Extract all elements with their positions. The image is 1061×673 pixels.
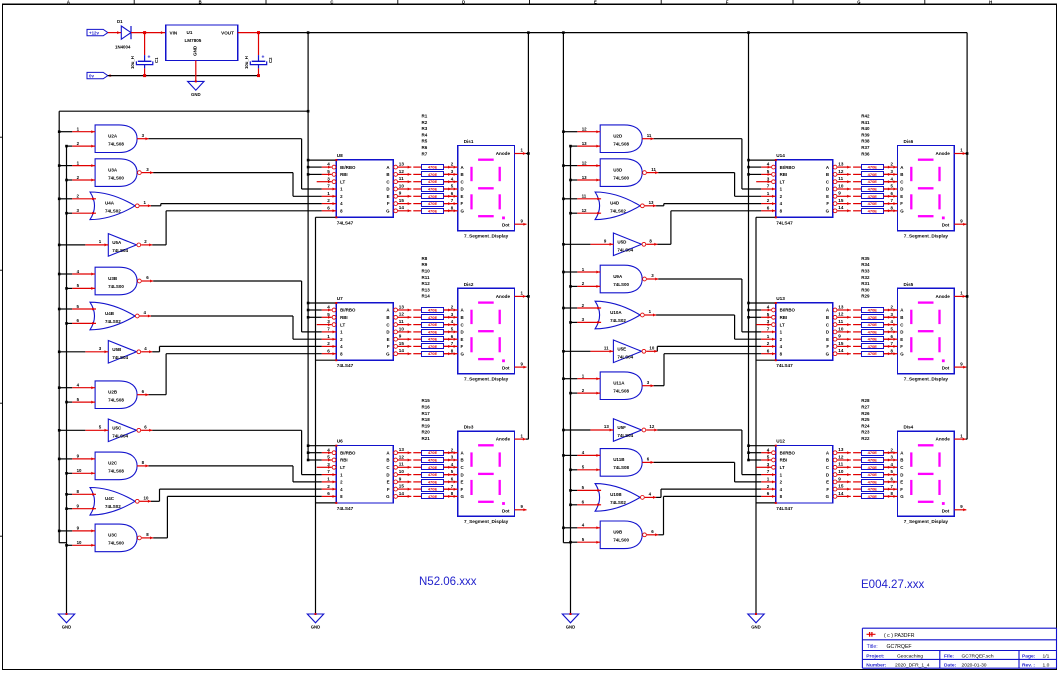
svg-text:LT: LT (340, 179, 345, 184)
svg-text:R18: R18 (422, 417, 431, 422)
svg-text:6: 6 (327, 491, 330, 496)
svg-text:1/1: 1/1 (1043, 654, 1050, 660)
svg-text:5: 5 (327, 455, 330, 460)
svg-text:E: E (387, 337, 390, 342)
svg-text:G: G (826, 494, 830, 499)
svg-text:F: F (387, 201, 390, 206)
svg-text:U3B: U3B (108, 276, 118, 281)
svg-text:10: 10 (838, 469, 844, 474)
svg-text:LT: LT (340, 322, 345, 327)
svg-text:GND: GND (62, 625, 72, 630)
svg-text:D: D (386, 187, 389, 192)
svg-text:1.0: 1.0 (1043, 662, 1050, 668)
svg-text:Number:: Number: (866, 662, 886, 668)
svg-text:+: + (148, 55, 151, 61)
svg-text:R16: R16 (422, 405, 431, 410)
svg-text:U9B: U9B (613, 530, 623, 535)
svg-text:E: E (461, 480, 464, 485)
svg-text:5: 5 (327, 312, 330, 317)
svg-text:9: 9 (399, 191, 402, 196)
svg-text:BI/RBO: BI/RBO (780, 165, 796, 170)
svg-text:74LS47: 74LS47 (776, 220, 793, 225)
svg-text:R37: R37 (861, 145, 870, 150)
svg-text:U2A: U2A (108, 134, 118, 139)
svg-text:U10B: U10B (610, 492, 622, 497)
svg-text:R19: R19 (422, 423, 431, 428)
svg-text:4: 4 (767, 305, 770, 310)
svg-text:12: 12 (582, 127, 587, 132)
svg-text:10u_H: 10u_H (244, 56, 249, 69)
svg-text:G: G (900, 494, 904, 499)
svg-text:E: E (826, 337, 829, 342)
svg-text:( c ) PA3DFR: ( c ) PA3DFR (884, 633, 915, 639)
svg-text:74LS04: 74LS04 (112, 248, 128, 253)
svg-text:13: 13 (582, 175, 587, 180)
svg-text:R35: R35 (861, 256, 870, 261)
svg-text:Rev. :: Rev. : (1022, 662, 1035, 668)
svg-text:+12v: +12v (89, 30, 99, 35)
svg-text:74LS47: 74LS47 (776, 363, 793, 368)
svg-text:470E: 470E (868, 465, 878, 470)
svg-text:470E: 470E (868, 165, 878, 170)
svg-text:File:: File: (944, 654, 954, 660)
svg-text:1: 1 (327, 191, 330, 196)
svg-text:12: 12 (838, 312, 844, 317)
svg-text:G: G (386, 494, 390, 499)
svg-text:U4C: U4C (105, 496, 115, 501)
svg-text:F: F (387, 344, 390, 349)
svg-text:9: 9 (838, 191, 841, 196)
svg-text:4: 4 (327, 305, 330, 310)
svg-text:RBI: RBI (780, 458, 788, 463)
svg-text:3: 3 (327, 176, 330, 181)
svg-text:U12: U12 (776, 439, 785, 444)
svg-text:2020-01-30: 2020-01-30 (962, 662, 987, 668)
svg-text:470E: 470E (428, 487, 438, 492)
svg-text:15: 15 (399, 484, 405, 489)
svg-text:B: B (386, 315, 389, 320)
svg-text:R4: R4 (422, 132, 428, 137)
svg-text:470E: 470E (868, 494, 878, 499)
svg-text:RBI: RBI (780, 315, 788, 320)
svg-text:E: E (900, 480, 903, 485)
svg-text:U5F: U5F (617, 425, 626, 430)
svg-text:U5D: U5D (617, 240, 627, 245)
svg-text:B: B (386, 172, 389, 177)
svg-text:10u_H: 10u_H (130, 56, 135, 69)
svg-text:D: D (461, 472, 464, 477)
svg-text:C2: C2 (268, 57, 273, 63)
svg-text:13: 13 (399, 447, 405, 452)
svg-text:U1: U1 (187, 30, 193, 35)
svg-text:G: G (826, 351, 830, 356)
svg-text:6: 6 (767, 491, 770, 496)
svg-text:R7: R7 (422, 151, 428, 156)
svg-text:C1: C1 (154, 57, 159, 63)
svg-text:F: F (900, 201, 903, 206)
svg-text:13: 13 (838, 447, 844, 452)
svg-text:R25: R25 (861, 417, 870, 422)
svg-text:74LS08: 74LS08 (108, 142, 124, 147)
svg-text:Anode: Anode (496, 294, 511, 299)
svg-text:12: 12 (399, 169, 405, 174)
svg-text:U3C: U3C (108, 533, 118, 538)
svg-text:Dot: Dot (502, 366, 510, 371)
svg-text:GND: GND (566, 625, 576, 630)
svg-text:74LS47: 74LS47 (337, 363, 354, 368)
svg-text:11: 11 (399, 462, 404, 467)
svg-text:E: E (594, 0, 597, 5)
svg-text:+: + (261, 55, 264, 61)
svg-text:E: E (387, 194, 390, 199)
svg-text:7: 7 (327, 469, 330, 474)
svg-text:10: 10 (77, 468, 82, 473)
svg-text:7_Segment_Display: 7_Segment_Display (904, 234, 949, 239)
svg-text:R21: R21 (422, 436, 431, 441)
svg-text:14: 14 (399, 205, 405, 210)
svg-text:9: 9 (838, 476, 841, 481)
svg-text:3: 3 (327, 462, 330, 467)
svg-text:D: D (462, 0, 465, 5)
svg-text:470E: 470E (868, 479, 878, 484)
svg-text:Anode: Anode (496, 437, 511, 442)
svg-text:B: B (386, 458, 389, 463)
svg-text:BI/RBO: BI/RBO (340, 165, 356, 170)
svg-text:74LS08: 74LS08 (613, 465, 629, 470)
svg-text:1N4004: 1N4004 (115, 44, 131, 49)
svg-text:6: 6 (327, 205, 330, 210)
svg-text:R30: R30 (861, 287, 870, 292)
svg-text:LT: LT (780, 322, 785, 327)
svg-text:R27: R27 (861, 405, 870, 410)
svg-text:2020_DFR_1_4: 2020_DFR_1_4 (895, 662, 930, 668)
svg-text:74LS47: 74LS47 (776, 506, 793, 511)
svg-text:Dis3: Dis3 (464, 425, 474, 430)
svg-text:Dot: Dot (502, 223, 510, 228)
svg-text:470E: 470E (868, 322, 878, 327)
svg-text:14: 14 (838, 205, 844, 210)
svg-text:U11B: U11B (613, 457, 625, 462)
svg-text:11: 11 (399, 319, 404, 324)
svg-text:13: 13 (838, 162, 844, 167)
svg-text:74LS02: 74LS02 (610, 500, 626, 505)
svg-text:B: B (900, 172, 903, 177)
svg-text:470E: 470E (868, 172, 878, 177)
svg-text:R3: R3 (422, 126, 428, 131)
svg-text:15: 15 (838, 198, 844, 203)
svg-text:13: 13 (399, 304, 405, 309)
svg-text:RBI: RBI (340, 458, 348, 463)
svg-text:11: 11 (838, 319, 843, 324)
svg-text:B: B (461, 315, 464, 320)
svg-text:D: D (900, 187, 903, 192)
svg-text:R5: R5 (422, 139, 428, 144)
svg-text:3: 3 (767, 319, 770, 324)
svg-text:F: F (387, 487, 390, 492)
svg-text:B: B (461, 172, 464, 177)
svg-text:14: 14 (399, 348, 405, 353)
svg-text:F: F (461, 344, 464, 349)
svg-text:R40: R40 (861, 126, 870, 131)
svg-text:470E: 470E (428, 172, 438, 177)
svg-text:D: D (826, 187, 829, 192)
svg-text:3: 3 (767, 462, 770, 467)
svg-text:74LS00: 74LS00 (108, 175, 124, 180)
svg-text:U14: U14 (776, 153, 785, 158)
svg-text:Dot: Dot (502, 508, 510, 513)
svg-text:470E: 470E (428, 479, 438, 484)
svg-text:U4D: U4D (610, 201, 620, 206)
svg-text:74LS04: 74LS04 (617, 247, 633, 252)
svg-text:470E: 470E (428, 194, 438, 199)
svg-text:14: 14 (399, 491, 405, 496)
svg-text:4: 4 (327, 447, 330, 452)
svg-text:7_Segment_Display: 7_Segment_Display (904, 376, 949, 381)
svg-text:74LS02: 74LS02 (105, 319, 121, 324)
svg-text:470E: 470E (868, 337, 878, 342)
svg-text:Geocaching: Geocaching (897, 654, 923, 660)
svg-text:10: 10 (399, 183, 405, 188)
svg-text:GND: GND (751, 625, 761, 630)
svg-text:R11: R11 (422, 275, 431, 280)
svg-text:U4A: U4A (105, 201, 115, 206)
svg-text:1: 1 (327, 477, 330, 482)
svg-text:Anode: Anode (496, 151, 511, 156)
svg-text:G: G (826, 209, 830, 214)
svg-text:1: 1 (767, 334, 770, 339)
svg-text:470E: 470E (428, 344, 438, 349)
svg-text:G: G (461, 209, 465, 214)
svg-text:470E: 470E (868, 187, 878, 192)
svg-text:1: 1 (767, 477, 770, 482)
svg-text:Dot: Dot (942, 366, 950, 371)
svg-text:U5A: U5A (112, 240, 122, 245)
svg-text:C: C (330, 0, 333, 5)
svg-text:Project:: Project: (866, 654, 885, 660)
svg-text:6: 6 (767, 205, 770, 210)
svg-text:4: 4 (327, 162, 330, 167)
svg-text:10: 10 (144, 496, 149, 501)
svg-text:6: 6 (327, 348, 330, 353)
svg-text:E: E (900, 337, 903, 342)
svg-text:470E: 470E (428, 494, 438, 499)
svg-text:3: 3 (767, 176, 770, 181)
svg-text:GND: GND (193, 45, 198, 56)
svg-text:470E: 470E (428, 351, 438, 356)
svg-text:N52.06.xxx: N52.06.xxx (419, 576, 477, 588)
svg-text:B: B (826, 315, 829, 320)
svg-text:470E: 470E (868, 458, 878, 463)
svg-text:3: 3 (327, 319, 330, 324)
svg-text:470E: 470E (428, 472, 438, 477)
svg-text:12: 12 (582, 208, 587, 213)
svg-text:G: G (461, 494, 465, 499)
svg-text:GND: GND (191, 92, 201, 97)
svg-text:F: F (826, 201, 829, 206)
svg-text:11: 11 (582, 194, 587, 199)
svg-text:15: 15 (838, 484, 844, 489)
svg-text:13: 13 (604, 424, 609, 429)
svg-text:R33: R33 (861, 269, 870, 274)
svg-text:R17: R17 (422, 411, 431, 416)
svg-text:Dis4: Dis4 (904, 425, 914, 430)
svg-text:R1: R1 (422, 114, 428, 119)
svg-text:11: 11 (647, 133, 652, 138)
svg-text:2: 2 (327, 341, 330, 346)
svg-text:74LS00: 74LS00 (613, 282, 629, 287)
svg-text:F: F (726, 0, 729, 5)
svg-text:12: 12 (582, 160, 587, 165)
svg-text:5: 5 (767, 169, 770, 174)
svg-text:74LS02: 74LS02 (105, 504, 121, 509)
svg-text:74LS08: 74LS08 (108, 469, 124, 474)
svg-text:470E: 470E (868, 194, 878, 199)
svg-text:Dis2: Dis2 (464, 282, 474, 287)
svg-text:10: 10 (77, 540, 82, 545)
svg-text:U2B: U2B (108, 390, 118, 395)
svg-text:GND: GND (311, 625, 321, 630)
svg-text:LT: LT (780, 179, 785, 184)
svg-text:R38: R38 (861, 139, 870, 144)
svg-text:7_Segment_Display: 7_Segment_Display (464, 376, 509, 381)
svg-text:D: D (826, 330, 829, 335)
svg-text:470E: 470E (428, 208, 438, 213)
svg-text:11: 11 (604, 346, 609, 351)
svg-text:470E: 470E (428, 187, 438, 192)
svg-text:U13: U13 (776, 296, 785, 301)
svg-text:7_Segment_Display: 7_Segment_Display (464, 519, 509, 524)
svg-text:U2D: U2D (613, 134, 623, 139)
svg-text:U2C: U2C (108, 461, 118, 466)
svg-text:470E: 470E (868, 315, 878, 320)
svg-text:74LS02: 74LS02 (105, 209, 121, 214)
svg-text:F: F (826, 487, 829, 492)
svg-text:GC7RQEF.sch: GC7RQEF.sch (962, 654, 994, 660)
svg-text:470E: 470E (428, 201, 438, 206)
svg-text:11: 11 (399, 176, 404, 181)
svg-text:B: B (826, 458, 829, 463)
svg-text:74LS00: 74LS00 (108, 541, 124, 546)
svg-text:11: 11 (651, 167, 656, 172)
svg-text:B: B (900, 458, 903, 463)
svg-text:U7: U7 (337, 296, 343, 301)
svg-text:BI/RBO: BI/RBO (780, 308, 796, 313)
svg-text:R14: R14 (422, 294, 431, 299)
svg-text:11: 11 (838, 462, 843, 467)
svg-text:R24: R24 (861, 423, 870, 428)
svg-text:D: D (386, 472, 389, 477)
svg-text:U10A: U10A (610, 310, 622, 315)
svg-text:2: 2 (767, 198, 770, 203)
svg-text:G: G (900, 209, 904, 214)
svg-text:U6: U6 (337, 439, 343, 444)
svg-text:R32: R32 (861, 275, 870, 280)
svg-text:R28: R28 (861, 398, 870, 403)
svg-text:470E: 470E (868, 344, 878, 349)
svg-text:R8: R8 (422, 256, 428, 261)
svg-text:10: 10 (399, 326, 405, 331)
svg-text:470E: 470E (868, 450, 878, 455)
svg-text:U5B: U5B (112, 347, 122, 352)
svg-text:12: 12 (399, 454, 405, 459)
svg-text:VOUT: VOUT (221, 31, 234, 36)
svg-text:74LS00: 74LS00 (613, 175, 629, 180)
svg-text:R42: R42 (861, 114, 870, 119)
svg-text:GC7RQEF: GC7RQEF (887, 644, 912, 650)
svg-text:RBI: RBI (780, 172, 788, 177)
svg-text:G: G (900, 351, 904, 356)
svg-text:74LS02: 74LS02 (610, 318, 626, 323)
svg-text:R34: R34 (861, 262, 870, 267)
svg-text:74LS08: 74LS08 (613, 142, 629, 147)
svg-text:U3A: U3A (108, 167, 118, 172)
svg-text:R23: R23 (861, 430, 870, 435)
svg-text:B: B (461, 458, 464, 463)
svg-text:R36: R36 (861, 151, 870, 156)
svg-text:470E: 470E (428, 450, 438, 455)
svg-text:74LS08: 74LS08 (108, 398, 124, 403)
svg-text:G: G (386, 209, 390, 214)
svg-text:470E: 470E (868, 329, 878, 334)
svg-text:7: 7 (767, 184, 770, 189)
svg-text:10: 10 (399, 469, 405, 474)
svg-text:74LS04: 74LS04 (112, 355, 128, 360)
svg-text:U8: U8 (337, 153, 343, 158)
svg-text:U11A: U11A (613, 381, 625, 386)
svg-text:2: 2 (327, 198, 330, 203)
svg-text:470E: 470E (868, 487, 878, 492)
svg-text:14: 14 (838, 348, 844, 353)
svg-text:470E: 470E (868, 308, 878, 313)
svg-text:E004.27.xxx: E004.27.xxx (861, 579, 925, 591)
svg-text:470E: 470E (428, 337, 438, 342)
svg-text:12: 12 (838, 454, 844, 459)
svg-text:Dot: Dot (942, 223, 950, 228)
svg-text:5: 5 (767, 455, 770, 460)
svg-text:U5C: U5C (112, 426, 122, 431)
svg-text:4: 4 (767, 447, 770, 452)
svg-text:Dis6: Dis6 (904, 139, 914, 144)
svg-text:470E: 470E (428, 322, 438, 327)
svg-text:F: F (461, 487, 464, 492)
svg-text:D1: D1 (117, 19, 123, 24)
svg-text:U4B: U4B (105, 311, 115, 316)
svg-text:D: D (826, 472, 829, 477)
svg-text:5: 5 (767, 312, 770, 317)
svg-text:15: 15 (399, 198, 405, 203)
svg-text:D: D (900, 472, 903, 477)
svg-text:470E: 470E (428, 308, 438, 313)
svg-text:9: 9 (838, 334, 841, 339)
svg-text:Dot: Dot (942, 508, 950, 513)
svg-text:10: 10 (649, 346, 654, 351)
svg-text:2: 2 (767, 484, 770, 489)
svg-text:E: E (461, 337, 464, 342)
svg-text:74LS02: 74LS02 (610, 209, 626, 214)
svg-text:R2: R2 (422, 120, 428, 125)
svg-text:7: 7 (767, 469, 770, 474)
svg-text:12: 12 (649, 424, 654, 429)
svg-text:B: B (900, 315, 903, 320)
svg-text:E: E (387, 480, 390, 485)
svg-text:13: 13 (582, 141, 587, 146)
svg-text:13: 13 (649, 200, 654, 205)
svg-text:A: A (67, 0, 70, 5)
svg-text:470E: 470E (868, 201, 878, 206)
svg-text:74LS47: 74LS47 (337, 220, 354, 225)
svg-text:LM7805: LM7805 (185, 38, 202, 43)
svg-text:470E: 470E (428, 165, 438, 170)
